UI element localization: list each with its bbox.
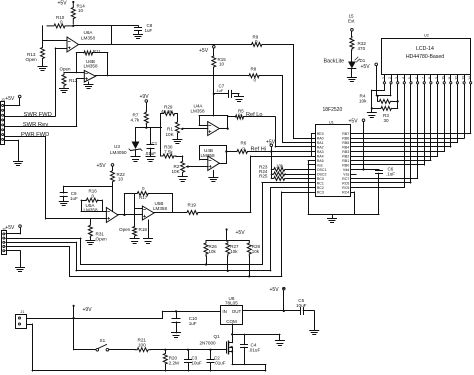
svg-text:Vss: Vss	[343, 173, 349, 177]
svg-text:RC7: RC7	[342, 177, 349, 181]
svg-text:RC5: RC5	[342, 186, 349, 190]
svg-text:R1: R1	[167, 126, 173, 131]
svg-text:J1: J1	[21, 310, 25, 314]
svg-text:+9V: +9V	[83, 307, 93, 313]
svg-text:14: 14	[468, 76, 472, 80]
svg-text:Vdd: Vdd	[343, 168, 349, 172]
svg-text:.01uF: .01uF	[214, 361, 226, 366]
svg-text:RB0: RB0	[342, 164, 349, 168]
svg-text:+5V: +5V	[58, 0, 68, 6]
svg-text:HD44780-Based: HD44780-Based	[406, 54, 444, 60]
svg-text:10k: 10k	[230, 249, 238, 254]
svg-text:10k: 10k	[209, 249, 217, 254]
svg-text:U2: U2	[424, 34, 429, 38]
svg-text:RE3: RE3	[317, 132, 324, 136]
svg-text:10: 10	[219, 62, 225, 67]
svg-text:.01uF: .01uF	[249, 347, 261, 352]
svg-text:0: 0	[243, 147, 245, 151]
svg-text:10: 10	[441, 76, 445, 80]
svg-text:11: 11	[448, 76, 452, 80]
svg-text:470: 470	[358, 46, 366, 51]
svg-text:RA5: RA5	[317, 159, 324, 163]
svg-text:0: 0	[254, 78, 257, 83]
svg-text:1uF: 1uF	[145, 28, 153, 33]
svg-text:IN: IN	[222, 309, 227, 314]
svg-text:LM358: LM358	[153, 206, 167, 211]
svg-text:Open: Open	[60, 67, 72, 72]
svg-text:+5V: +5V	[236, 230, 246, 236]
svg-text:RB2: RB2	[342, 155, 349, 159]
svg-text:R25: R25	[259, 173, 268, 178]
svg-text:6: 6	[415, 77, 419, 79]
svg-text:1uF: 1uF	[189, 321, 197, 326]
svg-text:1: 1	[382, 77, 386, 79]
svg-text:RB4: RB4	[342, 146, 349, 150]
svg-text:12: 12	[455, 76, 459, 80]
svg-text:S1: S1	[100, 338, 106, 343]
svg-text:+5V: +5V	[199, 48, 209, 54]
svg-text:RC4: RC4	[342, 191, 349, 195]
svg-text:+5V: +5V	[5, 225, 15, 231]
svg-text:7: 7	[421, 77, 425, 79]
svg-text:LM4050: LM4050	[110, 150, 127, 155]
svg-text:U3: U3	[114, 144, 120, 149]
svg-text:RA3: RA3	[317, 150, 324, 154]
svg-text:78L05: 78L05	[225, 300, 238, 305]
svg-text:9: 9	[435, 77, 439, 79]
svg-text:0: 0	[142, 186, 145, 191]
svg-text:R17: R17	[139, 195, 148, 200]
svg-text:100: 100	[138, 343, 146, 348]
svg-text:RB5: RB5	[342, 141, 349, 145]
svg-text:Ext: Ext	[348, 19, 355, 24]
svg-text:OSC2: OSC2	[317, 173, 327, 177]
svg-text:10K: 10K	[172, 169, 181, 174]
svg-text:U1: U1	[329, 120, 334, 124]
svg-text:10k: 10k	[276, 163, 284, 168]
svg-text:RC3: RC3	[317, 191, 324, 195]
svg-text:2: 2	[388, 77, 392, 79]
svg-text:.01uF: .01uF	[145, 151, 157, 156]
svg-text:0: 0	[255, 39, 258, 44]
svg-text:30: 30	[384, 118, 390, 123]
svg-text:RC6: RC6	[342, 182, 349, 186]
svg-text:R6: R6	[241, 141, 247, 146]
svg-text:13: 13	[461, 76, 465, 80]
svg-text:SWR FWD: SWR FWD	[24, 112, 52, 118]
svg-text:J3: J3	[1, 98, 5, 102]
svg-text:+5V: +5V	[5, 96, 15, 102]
svg-text:10k: 10k	[359, 99, 367, 104]
svg-text:RB6: RB6	[342, 137, 349, 141]
svg-text:0: 0	[92, 194, 95, 199]
svg-text:10: 10	[78, 8, 84, 13]
svg-text:1uF: 1uF	[70, 196, 78, 201]
svg-text:Open: Open	[26, 57, 38, 62]
svg-text:10uF: 10uF	[192, 361, 203, 366]
svg-text:10: 10	[118, 177, 124, 182]
svg-text:RA2: RA2	[317, 146, 324, 150]
svg-text:D1: D1	[360, 58, 366, 63]
svg-text:2.2M: 2.2M	[169, 361, 179, 366]
svg-text:C1: C1	[152, 141, 158, 146]
svg-text:LM358: LM358	[81, 36, 95, 41]
svg-text:2N7000: 2N7000	[200, 340, 217, 345]
svg-text:LCD-14: LCD-14	[416, 46, 434, 52]
svg-text:1uF: 1uF	[217, 89, 224, 93]
svg-text:4.7k: 4.7k	[131, 118, 140, 123]
svg-text:RA4: RA4	[317, 155, 324, 159]
svg-text:U6A: U6A	[84, 30, 94, 35]
svg-text:+5V: +5V	[97, 163, 107, 169]
svg-text:RC2: RC2	[317, 186, 324, 190]
svg-text:COM: COM	[226, 319, 237, 324]
svg-text:R11: R11	[93, 49, 101, 54]
svg-text:LM358: LM358	[201, 153, 215, 158]
svg-text:OUT: OUT	[232, 309, 242, 314]
svg-text:Ref Lo: Ref Lo	[246, 112, 262, 118]
svg-text:49.9K: 49.9K	[161, 109, 174, 114]
svg-text:5: 5	[408, 77, 412, 79]
svg-text:10uF: 10uF	[296, 303, 307, 308]
svg-text:7.5k: 7.5k	[164, 150, 173, 155]
svg-text:10K: 10K	[166, 132, 175, 137]
svg-text:+5V: +5V	[349, 118, 359, 124]
svg-text:3: 3	[395, 77, 399, 79]
svg-text:RC0: RC0	[317, 177, 324, 181]
svg-text:RB3: RB3	[342, 150, 349, 154]
svg-text:+5V: +5V	[270, 287, 280, 293]
svg-text:4: 4	[402, 77, 406, 79]
svg-text:LM358: LM358	[191, 108, 205, 113]
svg-text:10k: 10k	[252, 249, 260, 254]
svg-text:OSC1: OSC1	[317, 168, 327, 172]
svg-text:Vss: Vss	[317, 164, 323, 168]
svg-text:RA1: RA1	[317, 141, 324, 145]
svg-text:R19: R19	[188, 203, 197, 208]
svg-text:Q1: Q1	[214, 334, 221, 339]
svg-text:LM358: LM358	[84, 208, 98, 213]
svg-text:R18: R18	[139, 227, 148, 232]
svg-text:RB7: RB7	[342, 132, 349, 136]
svg-text:8: 8	[428, 77, 432, 79]
svg-text:RC1: RC1	[317, 182, 324, 186]
svg-text:Open: Open	[119, 227, 131, 232]
svg-text:LM358: LM358	[84, 63, 98, 68]
svg-text:R8: R8	[251, 67, 257, 72]
svg-text:C7: C7	[219, 84, 225, 89]
svg-text:+5V: +5V	[361, 64, 371, 70]
svg-text:BackLite: BackLite	[324, 58, 345, 64]
svg-text:+9V: +9V	[140, 94, 150, 100]
svg-text:18F2520: 18F2520	[323, 107, 343, 113]
svg-text:.1uF: .1uF	[386, 172, 395, 177]
svg-text:RA0: RA0	[317, 137, 324, 141]
svg-text:RB1: RB1	[342, 159, 349, 163]
svg-text:Open: Open	[96, 237, 108, 242]
svg-text:0: 0	[239, 113, 241, 117]
